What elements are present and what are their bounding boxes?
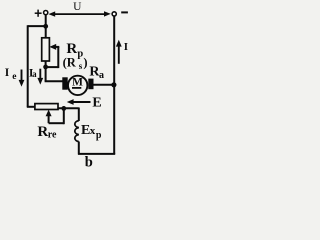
svg-text:a: a: [99, 70, 104, 81]
wire left rail vertical (field branch): [27, 25, 29, 107]
plus sign: [35, 10, 42, 17]
svg-text:I: I: [5, 67, 10, 79]
current Ia arrow (down): [39, 69, 41, 79]
svg-text:re: re: [48, 130, 57, 141]
svg-text:R: R: [37, 124, 48, 140]
svg-text:e: e: [12, 72, 16, 82]
svg-text:(R: (R: [63, 56, 77, 70]
wire Rp wiper shaft: [54, 46, 59, 48]
EMF E arrow (pointing left): [73, 101, 91, 103]
wire top-left horizontal (+ junction to left rail): [28, 25, 46, 27]
motor left brush: [62, 77, 67, 89]
current Ie arrow (down): [21, 70, 23, 81]
resistor Rre (field rheostat body): [35, 104, 58, 110]
svg-text:U: U: [73, 1, 82, 13]
Rp wiper arrowhead: [49, 44, 56, 50]
wire left rail to Rre left terminal: [27, 106, 36, 108]
wire armature branch down: [45, 66, 47, 81]
current I arrow (right rail, up): [118, 46, 120, 64]
wire right brush to right rail: [93, 84, 114, 86]
terminal - circle: [112, 12, 116, 16]
wire coil bottom vertical: [78, 142, 80, 155]
svg-text:R: R: [66, 41, 77, 57]
motor right brush: [88, 79, 93, 90]
wire armature branch to left brush: [45, 80, 63, 82]
motor U1 circle: [68, 76, 87, 95]
wire Rre right to coil top corner: [58, 107, 79, 109]
minus sign: [121, 11, 128, 13]
wire Rp bottom stub: [45, 61, 47, 68]
wire junction to Rp top: [45, 26, 47, 39]
svg-text:): ): [83, 56, 87, 70]
wire Rp wiper loop bottom: [46, 66, 59, 68]
wire Rre wiper shaft down: [48, 113, 50, 124]
resistor Rp (starting rheostat body): [42, 38, 50, 61]
wire Rre wiper loop right up to junction: [63, 108, 65, 124]
terminal + circle: [44, 11, 48, 15]
voltage U double arrow: [53, 13, 107, 15]
svg-text:b: b: [85, 155, 93, 171]
svg-text:a: a: [32, 69, 37, 79]
wire Rp wiper loop right vertical: [57, 47, 59, 68]
inductor Exp (excitation winding, 3 left-bulging arcs): [75, 121, 79, 142]
wire right rail vertical: [113, 16, 115, 154]
svg-text:E: E: [92, 96, 101, 111]
svg-text:s: s: [79, 61, 83, 71]
motor M underline (DC mark): [72, 87, 81, 89]
node junction dot on right rail: [111, 82, 116, 87]
svg-text:p: p: [96, 130, 102, 141]
node junction dot below Rp: [43, 65, 48, 70]
svg-text:I: I: [124, 41, 128, 53]
svg-text:M: M: [72, 76, 83, 88]
wire Rre wiper loop bottom: [49, 122, 64, 124]
node junction dot Rre right: [61, 106, 66, 111]
wire + terminal stub down: [45, 15, 47, 27]
wire coil top vertical: [78, 108, 80, 122]
svg-text:x: x: [90, 125, 96, 137]
node junction dot below +: [43, 24, 48, 29]
Rre wiper arrowhead (pointing up): [46, 110, 52, 117]
wire bottom horizontal: [78, 153, 115, 155]
